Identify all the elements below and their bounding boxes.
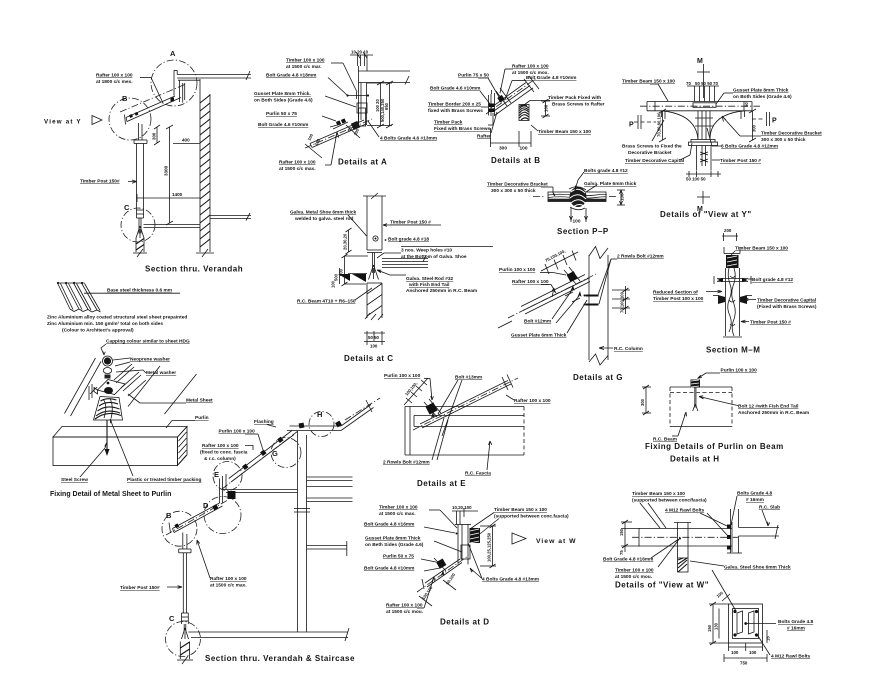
svg-text:70: 70 (686, 81, 691, 86)
svg-text:Timber 100 x 100: Timber 100 x 100 (615, 568, 654, 574)
svg-text:Zinc Aluminium min. 150 gm/m²: Zinc Aluminium min. 150 gm/m² total on b… (47, 321, 163, 327)
svg-text:Rafter 100 x 100: Rafter 100 x 100 (210, 576, 247, 582)
svg-text:Bolt #12mm: Bolt #12mm (524, 319, 551, 325)
svg-text:150: 150 (707, 624, 712, 632)
svg-text:Details at H: Details at H (670, 455, 720, 464)
svg-text:4 M12 Rawl Bolts: 4 M12 Rawl Bolts (771, 654, 811, 660)
svg-text:750: 750 (740, 661, 748, 666)
svg-text:Zinc Aluminium alloy coated st: Zinc Aluminium alloy coated structural s… (47, 315, 187, 321)
svg-text:on Both Sides (Grade 4.6): on Both Sides (Grade 4.6) (254, 98, 313, 104)
svg-text:R.C. Column: R.C. Column (614, 346, 643, 352)
svg-text:Bolt Grade 4.8 #10mm: Bolt Grade 4.8 #10mm (364, 566, 414, 572)
svg-text:100: 100 (331, 280, 336, 288)
svg-text:Details at A: Details at A (338, 158, 387, 167)
svg-text:3300: 3300 (164, 165, 169, 176)
svg-text:on Both Sides (Grade 4.6): on Both Sides (Grade 4.6) (733, 94, 792, 100)
svg-text:4 Bolts Grade 4.8 #13mm: 4 Bolts Grade 4.8 #13mm (482, 577, 539, 583)
svg-text:welded to galva. steel rod: welded to galva. steel rod (294, 216, 353, 222)
svg-text:4 M12 Rawl Bolts: 4 M12 Rawl Bolts (665, 508, 705, 514)
svg-text:Flashing: Flashing (254, 419, 274, 425)
svg-text:100: 100 (573, 219, 581, 225)
svg-text:# 16mm: # 16mm (787, 626, 805, 632)
svg-text:P: P (629, 122, 634, 129)
svg-text:Details of "View at W": Details of "View at W" (615, 581, 709, 590)
svg-text:130: 130 (714, 622, 719, 630)
svg-text:(supported between conc.fascia: (supported between conc.fascia) (494, 514, 569, 520)
svg-text:4 Bolts Grade 4.6 #13mm: 4 Bolts Grade 4.6 #13mm (380, 136, 437, 142)
svg-text:Rafter 100 x 100: Rafter 100 x 100 (96, 73, 133, 79)
svg-text:Timber Decorative Bracket: Timber Decorative Bracket (487, 182, 548, 188)
svg-text:Fixed with Brass Screws: Fixed with Brass Screws (434, 126, 491, 132)
svg-text:Timber Beam 150 x 100: Timber Beam 150 x 100 (494, 507, 547, 513)
svg-text:Rafter 100 x 100: Rafter 100 x 100 (202, 443, 239, 449)
svg-text:Timber 100 x 100: Timber 100 x 100 (379, 505, 418, 511)
svg-text:with Fish End Tail: with Fish End Tail (408, 282, 449, 288)
svg-text:Details at E: Details at E (417, 479, 466, 488)
svg-text:50 50 50: 50 50 50 (695, 81, 713, 86)
svg-text:B: B (166, 511, 172, 520)
svg-text:Purlin 50 x 75: Purlin 50 x 75 (266, 111, 297, 117)
svg-text:Gusset Plate 8mm Thick: Gusset Plate 8mm Thick (733, 88, 789, 94)
svg-text:300 x 300 x 50 thick: 300 x 300 x 50 thick (491, 188, 536, 194)
svg-text:Bolt Grade 4.6 #10mm: Bolt Grade 4.6 #10mm (430, 86, 480, 92)
svg-text:Details at G: Details at G (573, 373, 623, 382)
svg-text:Purlin 100 x 100: Purlin 100 x 100 (721, 368, 758, 374)
svg-text:500,140,250: 500,140,250 (380, 98, 385, 122)
svg-text:75: 75 (619, 550, 624, 555)
svg-text:Capping colour similar to shee: Capping colour similar to sheet HDG (106, 339, 190, 345)
svg-text:Bolt grade 4.8 #12: Bolt grade 4.8 #12 (752, 277, 793, 283)
svg-text:100: 100 (749, 650, 757, 655)
svg-text:Metal Sheet: Metal Sheet (186, 398, 213, 404)
svg-text:Timber Pack: Timber Pack (434, 120, 463, 126)
svg-text:E: E (214, 470, 219, 479)
svg-text:Bolts grade 4.8 #12: Bolts grade 4.8 #12 (584, 168, 628, 174)
svg-text:R.C. Fascia: R.C. Fascia (465, 471, 491, 477)
svg-text:100,25,125,250: 100,25,125,250 (487, 532, 492, 562)
svg-text:Timber Post 150 #: Timber Post 150 # (750, 320, 791, 326)
svg-text:Bolt Grade 4.8 #16mm: Bolt Grade 4.8 #16mm (603, 557, 653, 563)
svg-text:B: B (122, 94, 128, 103)
svg-text:on Beth Sides (Grade 4.6): on Beth Sides (Grade 4.6) (365, 542, 424, 548)
svg-text:Bolt Grade 4.6 #10mm: Bolt Grade 4.6 #10mm (258, 122, 308, 128)
svg-text:Bolts Grade 4.8: Bolts Grade 4.8 (778, 619, 814, 625)
svg-text:Details at D: Details at D (440, 618, 490, 627)
svg-text:Section P–P: Section P–P (557, 227, 609, 236)
svg-text:50 100 50: 50 100 50 (686, 177, 706, 182)
svg-text:Anchored 250mm in R.C. Beam: Anchored 250mm in R.C. Beam (406, 288, 477, 294)
svg-text:Timber 100 x 100: Timber 100 x 100 (286, 58, 325, 64)
svg-text:R.C. Slab: R.C. Slab (759, 505, 780, 511)
svg-text:Timber Post 150 #: Timber Post 150 # (720, 158, 761, 164)
svg-text:Decorative Bracket: Decorative Bracket (628, 150, 672, 156)
svg-text:2 Rowls Bolt #12mm: 2 Rowls Bolt #12mm (383, 460, 430, 466)
svg-text:1400: 1400 (172, 192, 183, 197)
svg-text:Bolt Grade 4.8 #18mm: Bolt Grade 4.8 #18mm (266, 73, 316, 79)
svg-text:G: G (272, 449, 278, 458)
svg-text:View at W: View at W (536, 538, 577, 545)
svg-text:20,30,20: 20,30,20 (343, 233, 348, 250)
svg-text:Purlin 100 x 100: Purlin 100 x 100 (384, 373, 421, 379)
svg-text:at 1500 c/c max.: at 1500 c/c max. (279, 166, 316, 172)
svg-text:A: A (170, 49, 176, 58)
svg-text:Bolt Grade 4.8 #16mm: Bolt Grade 4.8 #16mm (364, 522, 414, 528)
svg-text:Timber Beam 150 x 100: Timber Beam 150 x 100 (622, 79, 675, 85)
svg-text:3 nos. Weep holes #10: 3 nos. Weep holes #10 (401, 248, 452, 254)
svg-text:View at Y: View at Y (44, 119, 82, 126)
svg-text:Bolt Grade 4.8 #10mm: Bolt Grade 4.8 #10mm (526, 75, 576, 81)
svg-text:at 1500 c/c mou.: at 1500 c/c mou. (615, 574, 652, 580)
svg-text:Rafter 100 x 100: Rafter 100 x 100 (279, 160, 316, 166)
svg-text:500: 500 (334, 273, 339, 281)
svg-text:at 1800 c/c mex.: at 1800 c/c mex. (96, 79, 133, 85)
svg-text:Rafter 100 x 100: Rafter 100 x 100 (514, 398, 551, 404)
svg-text:at the Bottom of Galva. Shoe: at the Bottom of Galva. Shoe (401, 254, 467, 260)
svg-text:Details at B: Details at B (491, 156, 541, 165)
svg-text:Rafter 100 x 100: Rafter 100 x 100 (512, 64, 549, 70)
svg-text:& r.c. column): & r.c. column) (204, 456, 236, 462)
svg-text:Gusset Plate 8mm Thick: Gusset Plate 8mm Thick (365, 536, 421, 542)
svg-text:70,50,80,100: 70,50,80,100 (657, 112, 662, 137)
svg-text:Purlin: Purlin (195, 415, 209, 421)
svg-text:Fixing Details of Purlin on Be: Fixing Details of Purlin on Beam (645, 442, 784, 451)
svg-text:Fixing Detail of Metal Sheet t: Fixing Detail of Metal Sheet to Purlin (50, 491, 171, 498)
svg-text:Timber Post 150#: Timber Post 150# (120, 585, 160, 591)
svg-text:300: 300 (499, 146, 507, 152)
svg-text:Galva. Steel Shoe 6mm Thick: Galva. Steel Shoe 6mm Thick (724, 565, 791, 571)
svg-text:Gusset Plate 8mm Thick.: Gusset Plate 8mm Thick. (254, 91, 311, 97)
svg-text:P: P (772, 118, 777, 125)
svg-text:100: 100 (731, 650, 739, 655)
svg-text:300 x 300 x 50 thick: 300 x 300 x 50 thick (761, 137, 806, 143)
svg-text:Purlin 50 x 75: Purlin 50 x 75 (383, 554, 414, 560)
svg-text:50 50: 50 50 (368, 335, 380, 340)
svg-text:Brass Screws to Rafter: Brass Screws to Rafter (552, 102, 605, 108)
svg-text:Timber Post 150#: Timber Post 150# (80, 179, 120, 185)
svg-text:15: 15 (766, 636, 771, 641)
svg-text:400: 400 (182, 138, 190, 143)
svg-text:(Fixed with Brass Screws): (Fixed with Brass Screws) (757, 304, 817, 310)
svg-text:R.C. Beam 4T10 + R6–150: R.C. Beam 4T10 + R6–150 (297, 299, 356, 305)
svg-text:Timber Beam 150 x 100: Timber Beam 150 x 100 (735, 246, 788, 252)
svg-text:Metal washer: Metal washer (146, 370, 176, 376)
svg-text:Anchored 250mm in R.C. Beam: Anchored 250mm in R.C. Beam (738, 410, 809, 416)
svg-text:Timber Beam 150 x 100: Timber Beam 150 x 100 (538, 129, 591, 135)
svg-text:Gusset Plate 6mm Thick: Gusset Plate 6mm Thick (511, 333, 567, 339)
svg-text:Brass Screws to Fixed the: Brass Screws to Fixed the (622, 144, 682, 150)
svg-text:at 1500 c/c max.: at 1500 c/c max. (210, 583, 247, 589)
svg-text:Bolt 12 #with Fish End Tail: Bolt 12 #with Fish End Tail (738, 404, 798, 410)
svg-text:Details of "View at Y": Details of "View at Y" (660, 210, 752, 219)
svg-text:Purlin 100 x 100: Purlin 100 x 100 (499, 267, 536, 273)
svg-text:Timber Decorative Capital: Timber Decorative Capital (625, 158, 684, 164)
svg-text:300: 300 (640, 398, 645, 406)
svg-text:Bolts Grade 4.8: Bolts Grade 4.8 (737, 491, 773, 497)
svg-text:at 1500 c/c max.: at 1500 c/c max. (379, 511, 416, 517)
svg-text:100: 100 (544, 104, 549, 112)
svg-text:10 20 10: 10 20 10 (351, 50, 369, 55)
svg-text:Bolt #13mm: Bolt #13mm (455, 375, 482, 381)
svg-text:10,20,100: 10,20,100 (452, 505, 472, 510)
svg-text:100: 100 (620, 193, 625, 201)
svg-text:Base steel thickness 0.6 mm: Base steel thickness 0.6 mm (107, 288, 172, 294)
svg-text:M: M (697, 58, 703, 65)
svg-text:200: 200 (724, 228, 732, 233)
svg-text:H: H (317, 410, 322, 419)
svg-text:100: 100 (520, 146, 528, 152)
svg-text:Section M–M: Section M–M (706, 346, 760, 355)
svg-text:2 Rowls Bolt #12mm: 2 Rowls Bolt #12mm (617, 254, 664, 260)
svg-text:Rafter: Rafter (477, 134, 491, 140)
svg-text:Galva. Steel Rod #32: Galva. Steel Rod #32 (406, 276, 454, 282)
svg-text:Plastic or treated timber pack: Plastic or treated timber packing (127, 477, 201, 483)
svg-text:6 Bolts Grade 4.8 #12mm: 6 Bolts Grade 4.8 #12mm (721, 144, 778, 150)
svg-text:Details at C: Details at C (344, 354, 394, 363)
svg-text:(fixed to conc. fascia: (fixed to conc. fascia (200, 450, 248, 456)
svg-text:at 1500 c/c mou.: at 1500 c/c mou. (386, 609, 423, 615)
svg-text:fixed with Brass Screws: fixed with Brass Screws (428, 108, 483, 114)
svg-text:Reduced Section of: Reduced Section of (653, 290, 698, 296)
svg-text:50: 50 (744, 102, 749, 107)
svg-text:Steel Screw: Steel Screw (61, 477, 88, 483)
svg-text:Neoprene washer: Neoprene washer (130, 357, 170, 363)
svg-text:# 16mm: # 16mm (746, 497, 764, 503)
svg-text:(Colour to Architect's approva: (Colour to Architect's approval) (62, 328, 134, 334)
svg-text:Timber Decorative Bracket: Timber Decorative Bracket (761, 131, 822, 137)
svg-text:70: 70 (713, 81, 718, 86)
svg-text:300: 300 (752, 124, 757, 132)
svg-text:Timber Beam 150 x 100: Timber Beam 150 x 100 (632, 491, 685, 497)
svg-text:150: 150 (619, 528, 624, 536)
svg-text:Timber Post 100 x 100: Timber Post 100 x 100 (653, 296, 704, 302)
svg-text:Timber Pack Fixed with: Timber Pack Fixed with (548, 95, 601, 101)
svg-text:(supported between conc/fascia: (supported between conc/fascia) (632, 498, 707, 504)
svg-text:Galva. Metal Shoe 6mm thick: Galva. Metal Shoe 6mm thick (290, 210, 356, 216)
svg-text:D: D (203, 501, 209, 510)
svg-text:70,100,100: 70,100,100 (620, 291, 625, 313)
svg-text:C: C (124, 203, 130, 212)
svg-text:Bolt grade 4.8 #18: Bolt grade 4.8 #18 (388, 237, 429, 243)
svg-text:Galva. Plate 6mm thick: Galva. Plate 6mm thick (584, 181, 637, 187)
svg-text:at 1500 c/c mar.: at 1500 c/c mar. (286, 64, 321, 70)
svg-text:Timber Border 200 x 25: Timber Border 200 x 25 (428, 102, 481, 108)
svg-text:Section thru. Verandah & Stair: Section thru. Verandah & Staircase (205, 654, 355, 663)
svg-text:C: C (169, 614, 175, 623)
svg-text:300: 300 (152, 132, 157, 140)
svg-text:Section thru. Verandah: Section thru. Verandah (145, 265, 243, 274)
svg-text:Timber Decorative Capital: Timber Decorative Capital (757, 298, 816, 304)
svg-text:100: 100 (370, 344, 378, 349)
